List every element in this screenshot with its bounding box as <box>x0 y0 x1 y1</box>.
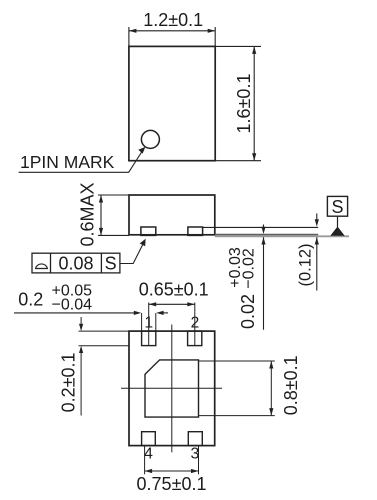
svg-text:1.2±0.1: 1.2±0.1 <box>143 10 203 30</box>
svg-text:S: S <box>331 197 343 217</box>
svg-text:0.02: 0.02 <box>238 294 258 329</box>
svg-text:2: 2 <box>191 315 200 332</box>
svg-text:0.75±0.1: 0.75±0.1 <box>137 474 207 494</box>
svg-text:−0.02: −0.02 <box>240 248 257 289</box>
svg-text:0.2: 0.2 <box>18 290 43 310</box>
svg-text:1PIN MARK: 1PIN MARK <box>20 152 115 172</box>
svg-text:0.8±0.1: 0.8±0.1 <box>281 355 301 415</box>
svg-text:0.65±0.1: 0.65±0.1 <box>139 280 209 300</box>
svg-text:1: 1 <box>144 315 153 332</box>
svg-text:(0.12): (0.12) <box>296 243 314 286</box>
svg-text:1.6±0.1: 1.6±0.1 <box>234 74 254 134</box>
svg-text:S: S <box>105 254 117 274</box>
svg-text:−0.04: −0.04 <box>52 297 93 314</box>
svg-text:0.08: 0.08 <box>58 254 93 274</box>
svg-text:0.6MAX: 0.6MAX <box>78 182 98 246</box>
svg-text:0.2±0.1: 0.2±0.1 <box>59 352 79 412</box>
svg-text:4: 4 <box>144 446 153 463</box>
